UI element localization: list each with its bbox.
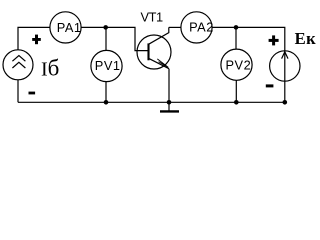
voltmeter PV2 — [221, 49, 252, 80]
svg-text:VT1: VT1 — [141, 10, 164, 25]
wire: PA2 right to top-right corner, down to Eк — [212, 27, 285, 51]
junction node: bottom-right corner — [283, 100, 288, 105]
wire: Iб bottom lead — [17, 80, 19, 103]
wire: PA1 right to base corner, down, into base — [81, 27, 149, 50]
wire: PV1 bottom lead — [105, 82, 107, 103]
junction node: PV2 bottom — [234, 100, 239, 105]
wire: bottom rail — [18, 101, 285, 103]
junction node: PV1 top — [103, 25, 108, 30]
junction node: emitter/ground — [167, 100, 172, 105]
wire: PV2 bottom lead — [235, 80, 237, 102]
ammeter PA2 — [181, 12, 214, 43]
wire: PV2 top lead — [235, 27, 237, 49]
svg-text:PA1: PA1 — [57, 20, 82, 35]
label Iб — [41, 56, 59, 81]
svg-text:PV2: PV2 — [226, 57, 252, 72]
polarity - (Eк) — [266, 84, 274, 87]
ground — [160, 102, 179, 111]
polarity + (Eк) — [269, 35, 279, 45]
voltmeter PV1 — [91, 50, 122, 81]
wire: Iб top lead up and right to PA1 — [18, 27, 50, 50]
wire: emitter lead down to rail — [168, 69, 170, 103]
polarity - (Iб) — [29, 92, 36, 95]
svg-text:Eк: Eк — [295, 29, 316, 48]
wire: collector corner to PA2 — [169, 26, 181, 28]
wire: Eк bottom lead — [284, 81, 286, 102]
current source Iб — [3, 50, 33, 80]
label VT1 — [141, 10, 164, 25]
wire: PV1 top lead — [105, 27, 107, 50]
polarity + (Iб) — [32, 35, 41, 45]
transistor VT1 — [137, 27, 171, 69]
svg-text:Iб: Iб — [41, 56, 59, 81]
label Eк — [295, 29, 317, 48]
svg-text:PV1: PV1 — [95, 58, 121, 73]
junction node: PV1 bottom — [104, 100, 109, 105]
svg-text:PA2: PA2 — [189, 19, 214, 34]
ammeter PA1 — [50, 12, 82, 43]
EMF source Eк — [270, 51, 300, 81]
junction node: PV2 top — [234, 25, 239, 30]
